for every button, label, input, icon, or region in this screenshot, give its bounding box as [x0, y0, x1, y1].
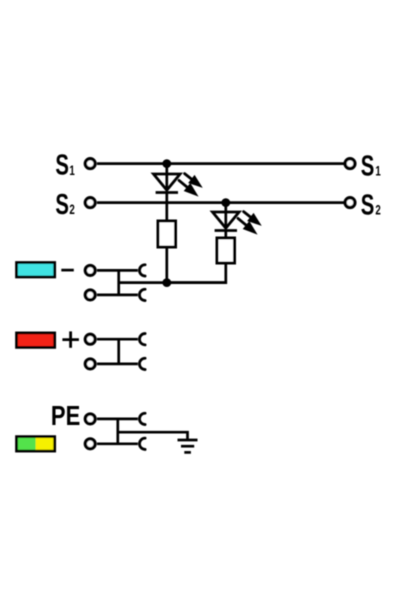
minus sign — [61, 269, 74, 272]
test circle minus lower — [85, 290, 95, 300]
wire PE earth tap — [118, 432, 188, 440]
resistor R2 — [217, 238, 235, 263]
label S1 left — [55, 149, 75, 181]
LED D2 arrow 2 — [235, 214, 261, 238]
indicator green-yellow (PE marking) — [17, 437, 55, 452]
svg-text:1: 1 — [375, 164, 381, 179]
LED D1 cathode bar — [156, 191, 178, 194]
svg-text:S: S — [55, 188, 69, 220]
LED D1 — [154, 164, 206, 221]
wire PE lower — [97, 442, 138, 445]
terminal circle S2 left — [85, 198, 95, 208]
LED D2 arrow 1 — [240, 208, 265, 230]
label S2 right — [361, 189, 381, 221]
ground symbol — [178, 440, 198, 452]
resistor R1 — [158, 221, 176, 247]
label S1 right — [361, 150, 381, 182]
wire minus upper — [97, 269, 138, 272]
node junction dot minus bus — [162, 278, 171, 287]
node junction dot D2 on S2 wire — [221, 198, 230, 207]
wire plus lower — [97, 363, 138, 366]
wire anode D2 — [224, 203, 227, 229]
svg-text:2: 2 — [375, 203, 381, 218]
wire minus vertical bridge — [117, 270, 120, 295]
test circle plus lower — [85, 359, 95, 369]
wire plus upper — [97, 338, 138, 341]
clamp contact plus lower — [139, 358, 145, 369]
wire S1 horizontal — [97, 162, 344, 165]
clamp contact PE upper — [139, 413, 145, 424]
wire R2 down and left to minus bus — [167, 263, 226, 283]
wire D1 cathode to R1 — [165, 193, 168, 222]
wire anode D1 — [165, 164, 168, 191]
svg-text:2: 2 — [69, 203, 75, 218]
wire minus lower — [97, 294, 138, 297]
label S2 left — [55, 188, 75, 220]
wire S2 horizontal — [97, 201, 344, 204]
svg-text:S: S — [361, 189, 375, 221]
clamp contact PE lower — [139, 438, 145, 449]
indicator cyan (minus marking) — [17, 263, 55, 278]
terminal circle S1 left — [85, 159, 95, 169]
wire minus bus tap — [119, 281, 226, 284]
svg-text:S: S — [55, 149, 69, 181]
terminal circle S2 right — [345, 198, 355, 208]
LED D2 triangle — [213, 212, 240, 228]
svg-text:S: S — [361, 150, 375, 182]
test circle PE lower — [85, 439, 95, 449]
clamp contact minus lower — [139, 289, 145, 300]
svg-text:1: 1 — [69, 163, 75, 178]
LED D1 arrow 1 — [181, 170, 206, 192]
wire R1 to minus bus — [165, 247, 168, 283]
LED D2 — [213, 203, 265, 239]
test circle minus upper — [85, 266, 95, 276]
indicator red (plus marking) — [17, 333, 55, 348]
node junction dot D1 on S1 wire — [162, 159, 171, 168]
plus sign — [62, 331, 79, 347]
terminal circle S1 right — [345, 159, 355, 169]
wire PE vertical bridge — [116, 419, 119, 444]
svg-text:PE: PE — [51, 401, 80, 432]
wire plus vertical bridge — [117, 339, 120, 364]
test circle PE upper — [85, 414, 95, 424]
LED D2 cathode bar — [215, 229, 237, 232]
wire PE upper — [97, 418, 138, 421]
clamp contact plus upper — [139, 334, 145, 345]
LED D1 arrow 2 — [176, 176, 202, 200]
clamp contact minus upper — [139, 265, 145, 276]
test circle plus upper — [85, 334, 95, 344]
LED D1 triangle — [154, 174, 181, 190]
wire D2 cathode to R2 — [224, 231, 227, 239]
